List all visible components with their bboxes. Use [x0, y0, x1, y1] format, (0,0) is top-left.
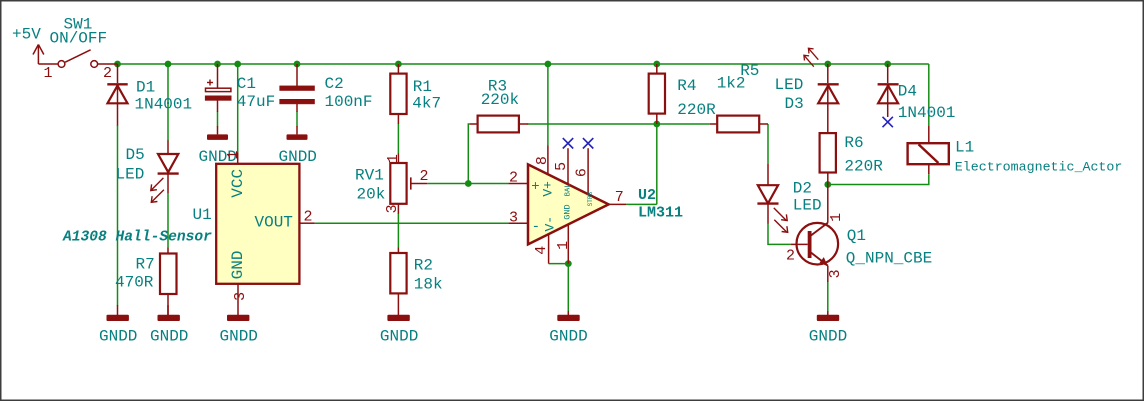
- svg-text:R1: R1: [413, 78, 432, 96]
- resistor R7: [160, 248, 177, 316]
- svg-text:220R: 220R: [844, 157, 883, 175]
- junction rail D5: [165, 61, 172, 68]
- svg-text:C2: C2: [325, 75, 344, 93]
- svg-text:3: 3: [827, 269, 844, 278]
- svg-text:RV1: RV1: [355, 167, 384, 185]
- junction rail D3: [824, 61, 831, 68]
- svg-text:D3: D3: [785, 95, 804, 113]
- ground GNDD under C2: [279, 126, 317, 166]
- junction rail C1: [214, 61, 221, 68]
- svg-text:GNDD: GNDD: [809, 328, 847, 346]
- ground GNDD under Q1: [809, 311, 847, 346]
- wire rail right end down to L1 x=928.8: [928, 64, 930, 126]
- svg-text:4: 4: [533, 246, 550, 255]
- svg-text:LED: LED: [793, 197, 822, 215]
- svg-text:4k7: 4k7: [412, 95, 441, 113]
- capacitor C1: [205, 64, 231, 112]
- wire C2 lower plate to GNDD: [296, 112, 298, 127]
- svg-text:R2: R2: [414, 256, 433, 274]
- svg-text:LM311: LM311: [638, 205, 683, 222]
- wire rail to D5 anode x=168: [167, 64, 169, 141]
- wire L1 bottom to Q1 collector node y=184.5: [828, 174, 929, 184]
- diode D4: [878, 64, 899, 117]
- svg-text:Q1: Q1: [847, 227, 866, 245]
- svg-text:220R: 220R: [677, 101, 716, 119]
- svg-text:D4: D4: [898, 83, 917, 101]
- wire U2 pin7 to node OUT y=204.4: [626, 203, 657, 205]
- svg-text:V+: V+: [541, 181, 556, 197]
- svg-text:1N4001: 1N4001: [898, 104, 956, 122]
- svg-text:1: 1: [555, 241, 572, 250]
- wire RV1 wiper to U2 plus input y=183.5: [427, 183, 508, 185]
- junction rail D1: [114, 61, 121, 68]
- svg-text:D1: D1: [136, 79, 155, 97]
- wire node OUT R3 right to R4 bottom y=124: [528, 123, 657, 125]
- wire D2 cathode down to Q1 base corner: [768, 224, 791, 245]
- svg-text:D2: D2: [793, 180, 812, 198]
- svg-text:L1: L1: [955, 139, 974, 157]
- wire main +5V rail y=64: [118, 63, 929, 65]
- svg-text:1: 1: [385, 154, 402, 163]
- svg-text:Q_NPN_CBE: Q_NPN_CBE: [846, 250, 932, 268]
- svg-text:BAL: BAL: [565, 184, 573, 197]
- svg-text:ON/OFF: ON/OFF: [50, 30, 108, 48]
- transistor Q1: [791, 185, 838, 283]
- svg-text:47uF: 47uF: [237, 93, 275, 111]
- ground GNDD under U1: [220, 315, 258, 346]
- resistor R6: [820, 133, 836, 184]
- wire D1 cathode to GNDD column x=117.5: [117, 125, 119, 306]
- svg-text:18k: 18k: [414, 276, 443, 294]
- ground GNDD under R2: [380, 315, 418, 346]
- wire R1 bottom to RV1 pin1 x=398.4: [397, 124, 399, 154]
- junction plus-input node: [465, 180, 472, 187]
- wire node OUT to R5 left y=124: [657, 123, 710, 125]
- svg-text:1k2: 1k2: [717, 75, 746, 93]
- svg-text:1N4001: 1N4001: [135, 96, 193, 114]
- svg-text:1: 1: [828, 213, 845, 222]
- wire U1 VOUT to U2 minus input y=223.2: [315, 222, 509, 224]
- svg-text:2: 2: [786, 248, 795, 265]
- resistor R3: [470, 116, 528, 133]
- svg-text:5: 5: [553, 162, 570, 171]
- wire R3 left feedback corner to plus-input node: [468, 124, 470, 184]
- svg-text:GND: GND: [229, 250, 247, 279]
- junction node OUT at R4 bottom: [653, 121, 660, 128]
- wire RV1 pin3 to R2 top x=398.4 crosses VOUT net: [397, 214, 399, 248]
- op-amp U2 LM311 body: [508, 146, 626, 264]
- junction rail R4: [653, 61, 660, 68]
- svg-text:-: -: [532, 219, 540, 235]
- wire D5 cathode to R7 x=168: [167, 193, 169, 247]
- svg-text:D5: D5: [126, 146, 145, 164]
- svg-text:2: 2: [509, 170, 518, 187]
- LED D3: [804, 48, 839, 133]
- svg-text:R7: R7: [136, 256, 155, 274]
- svg-text:8: 8: [534, 156, 551, 165]
- LED D2: [757, 164, 787, 232]
- svg-text:GNDD: GNDD: [150, 328, 188, 346]
- svg-text:1: 1: [225, 150, 242, 159]
- svg-text:GNDD: GNDD: [549, 328, 587, 346]
- wire C1 minus to GNDD: [217, 112, 219, 127]
- svg-text:3: 3: [384, 204, 401, 213]
- svg-text:LED: LED: [116, 166, 145, 184]
- diode D1: [107, 64, 127, 126]
- svg-text:C1: C1: [237, 75, 256, 93]
- svg-text:V-: V-: [542, 216, 557, 232]
- junction rail U1 VCC: [234, 61, 241, 68]
- svg-text:Electromagnetic_Actor: Electromagnetic_Actor: [955, 160, 1123, 175]
- svg-text:VCC: VCC: [229, 169, 247, 198]
- wire U2 pin1 junction down to GNDD x=568.3: [567, 264, 569, 311]
- wire U2 pin4 to pin1 junction y=263.6: [549, 263, 569, 265]
- ground GNDD under R7: [150, 305, 188, 346]
- junction rail D4: [884, 61, 891, 68]
- svg-text:GND: GND: [563, 204, 573, 219]
- svg-text:STRB: STRB: [587, 192, 594, 207]
- svg-text:A1308 Hall-Sensor: A1308 Hall-Sensor: [62, 230, 212, 246]
- junction U2 pin1 pin4 ground node: [565, 260, 572, 267]
- svg-text:3: 3: [232, 292, 249, 301]
- IC U1 A1308 hall sensor body: [216, 153, 314, 316]
- potentiometer RV1: [390, 154, 427, 214]
- svg-text:GNDD: GNDD: [99, 328, 137, 346]
- svg-text:220k: 220k: [481, 91, 519, 109]
- svg-text:2: 2: [420, 168, 429, 185]
- wire rail to U2 pin8 V+ x=547.9: [547, 64, 549, 146]
- resistor R4: [649, 64, 665, 124]
- U2 no-connect X on pin 6: [583, 138, 593, 148]
- junction rail U2 V+: [545, 61, 552, 68]
- svg-text:+: +: [531, 179, 539, 195]
- wire node OUT down to U2 pin7 x=656.8: [656, 124, 658, 204]
- svg-text:1: 1: [44, 65, 53, 82]
- ground GNDD under U2: [549, 311, 587, 346]
- svg-text:GNDD: GNDD: [380, 328, 418, 346]
- svg-text:R4: R4: [677, 77, 696, 95]
- svg-text:2: 2: [304, 209, 313, 226]
- svg-text:470R: 470R: [115, 274, 154, 292]
- svg-text:20k: 20k: [357, 186, 386, 204]
- switch SW1: [58, 50, 117, 68]
- no-connect X on D4 anode: [883, 117, 893, 127]
- ground GNDD under C1: [199, 126, 237, 166]
- resistor R2: [390, 248, 406, 316]
- svg-text:U1: U1: [193, 206, 212, 224]
- ground GNDD under D1: [99, 305, 137, 346]
- svg-text:LED: LED: [775, 76, 804, 94]
- junction rail R1: [395, 61, 402, 68]
- relay coil L1: [908, 126, 949, 174]
- resistor R1: [390, 64, 406, 124]
- svg-text:VOUT: VOUT: [254, 214, 292, 232]
- svg-text:7: 7: [615, 189, 624, 206]
- svg-text:+5V: +5V: [12, 26, 41, 44]
- power +5V symbol: [33, 45, 58, 65]
- junction rail C2: [294, 61, 301, 68]
- svg-text:GNDD: GNDD: [220, 328, 258, 346]
- junction Q1 collector node: [824, 181, 831, 188]
- wire Q1 emitter to GNDD x=827.8: [827, 282, 829, 312]
- svg-text:R6: R6: [844, 134, 863, 152]
- LED D5: [151, 141, 179, 203]
- svg-text:6: 6: [573, 168, 590, 177]
- wire rail to U1 VCC pin x=237.7: [237, 64, 239, 153]
- svg-text:3: 3: [509, 210, 518, 227]
- resistor R5: [710, 116, 768, 133]
- capacitor C2: [280, 64, 315, 112]
- wire R5 right down to D2 anode x=768: [767, 124, 769, 164]
- U2 no-connect X on pin 5: [563, 138, 573, 148]
- svg-text:U2: U2: [638, 187, 656, 204]
- svg-text:100nF: 100nF: [325, 93, 373, 111]
- svg-text:2: 2: [103, 65, 112, 82]
